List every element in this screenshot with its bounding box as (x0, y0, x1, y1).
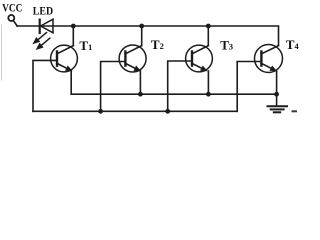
LED D1 (33, 19, 53, 49)
wire T1 base left and down (33, 60, 57, 111)
junction dot T2 emitter (138, 92, 143, 97)
svg-text:T4: T4 (286, 37, 299, 52)
junction dot T2 collector (139, 24, 144, 29)
wire top rail (17, 26, 279, 45)
wire T3 emitter down to emitter rail (207, 71, 209, 94)
wire T1 emitter down to emitter rail (70, 71, 72, 94)
transistor T1 (51, 45, 78, 72)
wire emitter rail to ground (276, 94, 278, 106)
wire T2 emitter down to emitter rail (139, 71, 141, 94)
junction dot T2 base on base rail (98, 109, 103, 114)
scan artifact speck near ground (293, 110, 297, 112)
wire base rail (33, 110, 237, 112)
wire T4 base left and down to base rail end (237, 62, 261, 112)
ground (268, 106, 288, 112)
svg-text:T1: T1 (79, 38, 92, 53)
svg-text:LED: LED (33, 6, 53, 18)
svg-text:VCC: VCC (2, 2, 22, 14)
wire T4 emitter down to emitter rail (276, 71, 278, 94)
wire T3 collector to rail (207, 26, 209, 46)
transistor T2 (119, 45, 146, 72)
svg-text:T3: T3 (220, 37, 233, 52)
junction dot T1 collector (71, 24, 76, 29)
junction dot T3 collector (206, 24, 211, 29)
scan artifact left edge (1, 25, 3, 80)
wire T1 collector to rail (72, 26, 74, 46)
wire T2 collector to rail (141, 26, 143, 46)
wire T2 base left and down to base rail (101, 62, 126, 112)
svg-text:T2: T2 (151, 37, 164, 52)
wire VCC terminal to top rail (13, 20, 17, 26)
junction dot T4 emitter at ground drop (274, 92, 279, 97)
junction dot T3 base on base rail (165, 109, 170, 114)
transistor T3 (186, 45, 213, 72)
wire emitter rail (71, 93, 276, 95)
wire T3 base left and down to base rail (168, 61, 192, 111)
terminal VCC (8, 15, 14, 21)
junction dot T3 emitter (206, 92, 211, 97)
transistor T4 (255, 45, 283, 73)
